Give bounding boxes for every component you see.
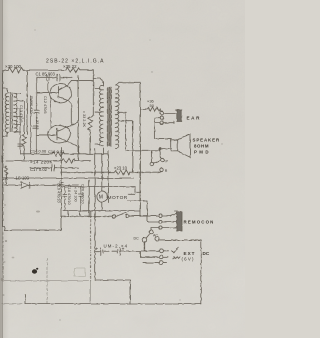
switch S3 contact B bbox=[142, 238, 146, 242]
svg-text:×35 22: ×35 22 bbox=[63, 64, 77, 69]
capacitor C20 lead bbox=[78, 187, 82, 211]
wire: dashed linkage bbox=[89, 216, 91, 281]
svg-text:EAR: EAR bbox=[187, 115, 202, 120]
EAR jack contact 3 bbox=[160, 121, 163, 124]
transistor Q2 2SB-22 bbox=[48, 125, 71, 143]
switch S1 pivot bbox=[150, 162, 153, 165]
EXT DC jack row 1 bbox=[159, 249, 163, 253]
resistor R? 2K (vertical, far left) bbox=[4, 166, 7, 185]
transformer T2 primary winding bbox=[99, 85, 103, 145]
wire bbox=[64, 153, 108, 155]
wire: battery left down bbox=[95, 216, 130, 303]
wire bbox=[75, 160, 90, 162]
page left edge line bbox=[1, 0, 3, 338]
svg-text:( 6 V ): ( 6 V ) bbox=[182, 256, 194, 261]
wire: mid horizontal y=152.5 bbox=[20, 153, 52, 155]
motor M1 bbox=[96, 191, 107, 202]
wire: drop from bus bbox=[90, 70, 93, 117]
ink blot bottom left bbox=[32, 268, 38, 274]
resistor R32 (vertical) bbox=[22, 125, 26, 160]
svg-text:UM-2 ×4: UM-2 ×4 bbox=[104, 243, 129, 248]
REMOCON jack contact 3 bbox=[159, 226, 162, 229]
wire: bottom bus bbox=[25, 303, 201, 305]
wire: vertical x=94.7 bbox=[94, 148, 96, 216]
left margin shading bbox=[0, 0, 1, 1]
svg-text:C16 470/10: C16 470/10 bbox=[67, 185, 71, 205]
wire: P contact stub up bbox=[160, 149, 162, 159]
svg-text:C14 0.06: C14 0.06 bbox=[30, 149, 47, 154]
capacitor C2 bbox=[47, 74, 49, 92]
wire: Q2 emitter down bbox=[78, 147, 80, 154]
wire: vertical x=147 bbox=[146, 201, 148, 222]
svg-text:C17 0.02: C17 0.02 bbox=[30, 167, 48, 172]
svg-text:M: M bbox=[99, 195, 103, 201]
svg-text:C12 470/6: C12 470/6 bbox=[43, 96, 47, 114]
speaker LS1 bbox=[160, 134, 190, 158]
switch S1 contact R bbox=[160, 168, 163, 171]
svg-text:R: R bbox=[165, 169, 168, 173]
wire: T2 secondary taps right bbox=[118, 112, 133, 120]
wire: T2 top lead bbox=[103, 81, 105, 86]
wire bbox=[61, 76, 72, 78]
svg-text:1S-193: 1S-193 bbox=[16, 176, 30, 181]
svg-text:C1 85.003: C1 85.003 bbox=[36, 72, 56, 77]
wire: vertical x=78 bbox=[77, 75, 79, 160]
capacitor C1 85.003 bbox=[57, 74, 60, 81]
check mark bbox=[171, 247, 178, 253]
wire: top supply bus y=70.5 bbox=[3, 69, 9, 71]
wire: mid horizontal y=178 bbox=[6, 177, 133, 179]
svg-text:DC: DC bbox=[203, 251, 210, 256]
wire bbox=[89, 130, 91, 154]
transistor Q1 2SB-22 bbox=[50, 84, 72, 103]
wire: vertical x=61 bbox=[60, 147, 62, 230]
battery BT1 UM-2x4 bbox=[95, 250, 100, 252]
capacitor C12 bbox=[34, 110, 40, 112]
small smudges bbox=[1, 29, 223, 320]
svg-text:AC: AC bbox=[153, 234, 158, 238]
switch S1 contact P bbox=[161, 158, 164, 161]
switch S3 (DC changeover) contact A bbox=[149, 230, 153, 234]
wire: contact1 to jack tip bbox=[164, 112, 177, 114]
svg-text:C19 470/10: C19 470/10 bbox=[57, 183, 61, 203]
svg-text:DC: DC bbox=[134, 237, 140, 241]
REMOCON jack body bbox=[175, 211, 182, 231]
wire: vertical x=36.3 bbox=[35, 77, 37, 80]
wire: contacts to jack bbox=[162, 214, 176, 228]
wire: A up to remocon drop bbox=[151, 227, 159, 230]
transformer T2 secondary winding bbox=[115, 85, 119, 148]
coil squiggle bbox=[173, 257, 180, 259]
wire: long horizontal y=186.5 bbox=[61, 187, 140, 192]
EAR jack body bbox=[175, 110, 181, 122]
wire: B down to battery row bbox=[143, 242, 145, 251]
svg-text:8OHM: 8OHM bbox=[194, 144, 209, 149]
switch S3 contact C bbox=[155, 237, 159, 241]
wire: T1 leads bbox=[3, 88, 8, 136]
svg-text:×33 2.2K: ×33 2.2K bbox=[82, 110, 86, 128]
wire: Q1 collector to node bbox=[72, 79, 94, 81]
wire: faint left bottom bbox=[3, 232, 90, 304]
wire: vertical x=88.7 bbox=[88, 180, 90, 216]
svg-text:×32 82: ×32 82 bbox=[35, 116, 39, 130]
EXT DC jack row 2 bbox=[159, 255, 163, 259]
wire: T1 secondary taps bbox=[16, 93, 23, 132]
wire: faint bus fragment left bbox=[2, 303, 22, 305]
svg-text:50: 50 bbox=[150, 103, 155, 108]
capacitor C13 bbox=[18, 144, 23, 146]
resistor R30 100 bbox=[8, 68, 23, 73]
junction dot bbox=[159, 148, 161, 150]
wire: T2 bottom lead bbox=[103, 148, 105, 154]
wire bbox=[80, 69, 93, 71]
capacitor C16 bbox=[59, 182, 63, 184]
svg-text:C13 470/6: C13 470/6 bbox=[19, 105, 23, 123]
battery polarity marks bbox=[96, 248, 125, 250]
resistor R14 220K bbox=[62, 158, 75, 162]
capacitor C19 lead bbox=[63, 187, 67, 211]
EAR jack contact 2 bbox=[160, 116, 163, 119]
transformer T1 (input, left) bbox=[3, 80, 51, 160]
paper background bbox=[0, 0, 245, 338]
wire: mid horizontal y=160 bbox=[6, 160, 62, 162]
wire: horizontal y=230 left bbox=[5, 229, 62, 231]
diode D1 1S-193 bbox=[21, 182, 29, 188]
wire: vertical x=125.6 bbox=[126, 112, 152, 150]
svg-text:FW30 470: FW30 470 bbox=[29, 96, 33, 114]
wire: right riser bbox=[200, 240, 202, 304]
svg-text:C20 470/10: C20 470/10 bbox=[81, 184, 85, 204]
wire bbox=[147, 221, 159, 223]
svg-text:P M D: P M D bbox=[194, 150, 209, 155]
wire: T2 primary taps bbox=[95, 88, 100, 144]
EAR jack contact 1 bbox=[160, 111, 164, 115]
svg-text:MOTOR: MOTOR bbox=[108, 195, 128, 201]
wire: C to right riser bbox=[159, 239, 201, 241]
resistor R? 0.062 row bbox=[52, 152, 64, 156]
wire: Q1 emitter down bbox=[68, 104, 71, 126]
resistor R33 2.2K (vertical) bbox=[88, 117, 92, 130]
wire: relay box verticals bbox=[68, 211, 90, 216]
wire: mid horizontal y=167.5 bbox=[30, 167, 78, 169]
switch S1 blade bbox=[153, 160, 160, 163]
transformer T2 core bbox=[107, 87, 111, 146]
wire: diode row bbox=[3, 184, 22, 186]
wire: vertical x=108 bbox=[107, 150, 109, 202]
resistor R35 22 bbox=[66, 67, 80, 72]
wire: C1 lead bbox=[36, 76, 56, 78]
wire: to T2 top bbox=[93, 78, 103, 83]
wire: left rail bbox=[3, 71, 5, 231]
svg-text:×30 100: ×30 100 bbox=[5, 64, 22, 69]
page left edge shadow bbox=[0, 0, 1, 338]
resistor R36 50 bbox=[140, 107, 161, 111]
wire: vertical x=132.4 bbox=[131, 121, 133, 172]
wire: left column verticals bbox=[20, 80, 51, 154]
svg-text:REMOCON: REMOCON bbox=[184, 220, 215, 225]
svg-text:×14 220K: ×14 220K bbox=[30, 160, 53, 165]
wire: horizontal y=210.5 bbox=[63, 210, 140, 212]
wire bbox=[29, 184, 78, 186]
wire: vertical x=27 bias bbox=[26, 71, 28, 135]
wire bbox=[23, 69, 66, 71]
switch S3 blade bbox=[146, 233, 150, 238]
svg-text:2K: 2K bbox=[3, 176, 8, 181]
wire: motor leads bbox=[101, 154, 103, 211]
EXT DC jack row 3 bbox=[159, 261, 163, 265]
svg-text:×23 10: ×23 10 bbox=[114, 166, 128, 171]
svg-text:EXT: EXT bbox=[184, 251, 196, 256]
capacitor C17 0.02 bbox=[52, 165, 55, 172]
wire: T2 top lead to right bbox=[116, 82, 140, 84]
wire: contact3 to vertical bbox=[154, 118, 170, 142]
svg-text:SPEAKER: SPEAKER bbox=[193, 138, 221, 143]
svg-text:×24 100: ×24 100 bbox=[74, 186, 78, 202]
svg-text:10/6: 10/6 bbox=[0, 155, 4, 162]
REMOCON jack contact 2 bbox=[159, 220, 162, 223]
REMOCON jack contact 1 bbox=[159, 214, 162, 217]
wire: vertical x=140 bbox=[139, 82, 141, 216]
wire: speaker return along y=150.3 bbox=[151, 150, 160, 162]
wire: after MOTOR text bbox=[127, 194, 147, 201]
resistor R23 10 bbox=[61, 170, 162, 174]
switch S2 (motor on/off) bbox=[61, 215, 112, 217]
svg-text:C18 0.02: C18 0.02 bbox=[48, 149, 65, 154]
capacitor C11 bbox=[33, 126, 38, 128]
wire: contact2 stub bbox=[155, 118, 174, 123]
